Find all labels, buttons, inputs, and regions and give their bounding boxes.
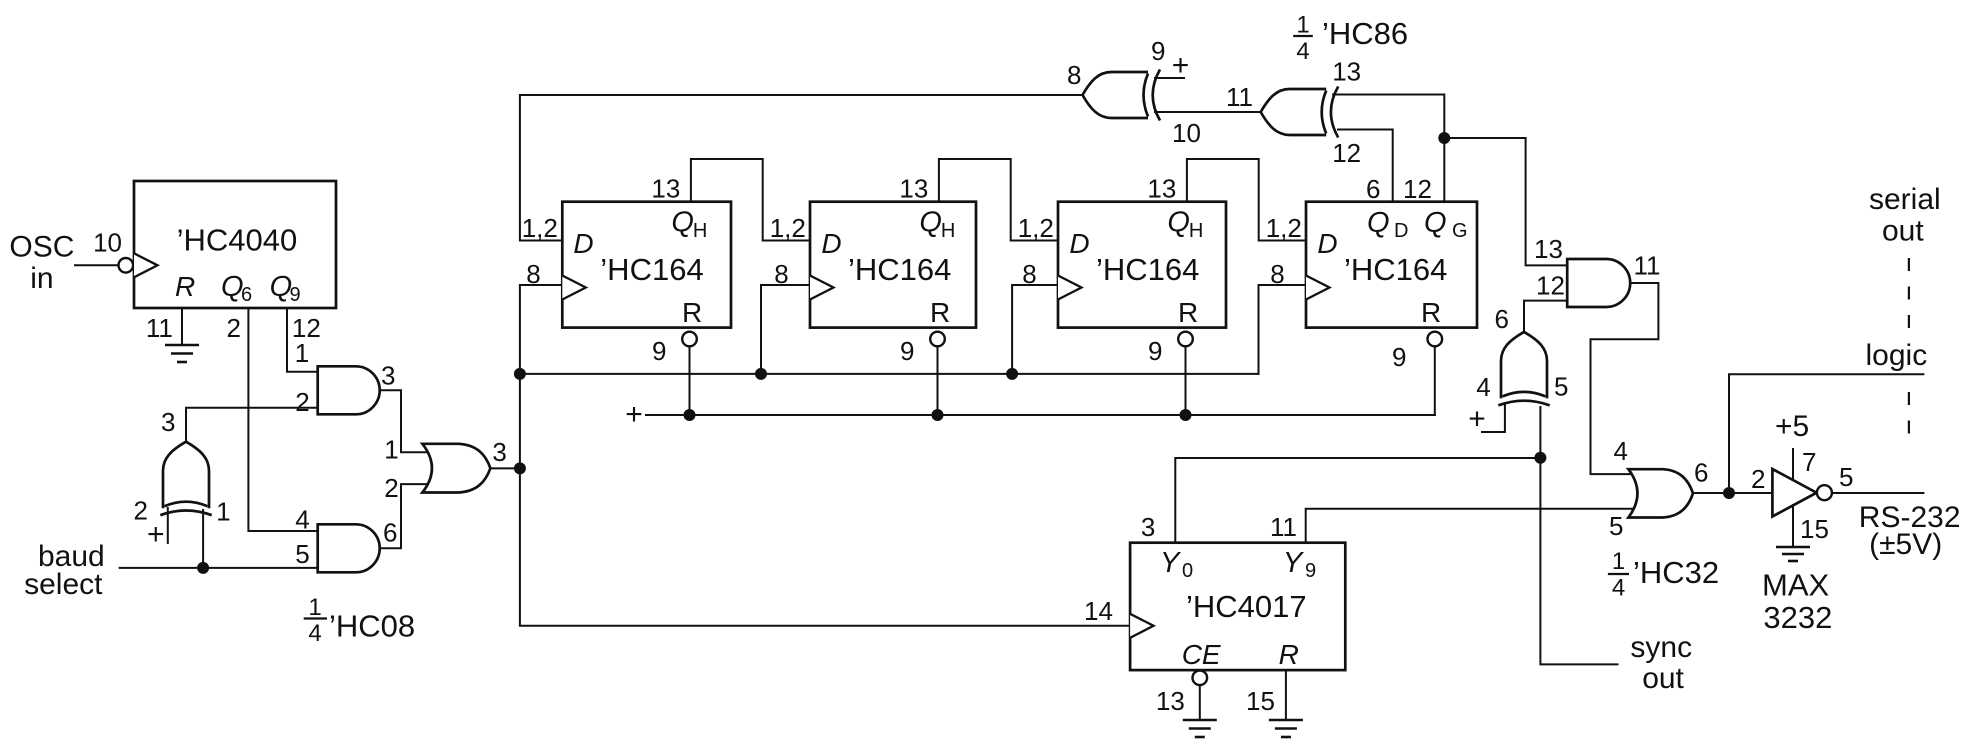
junction plus bus box2	[932, 409, 944, 421]
wire baud select	[120, 567, 318, 569]
wire AND3 out routing to OR pin 4	[1591, 283, 1659, 474]
junction clock bus	[514, 368, 526, 380]
enable bubble CE pin 13	[1193, 671, 1208, 686]
svg-text:4: 4	[1296, 38, 1309, 65]
wire xor pin 2 stub to +	[167, 508, 169, 543]
svg-text:H: H	[941, 220, 955, 242]
wire xor1 pin 9 to +	[1155, 77, 1184, 79]
svg-text:2: 2	[227, 313, 241, 343]
svg-text:3: 3	[1141, 512, 1155, 542]
svg-text:4: 4	[308, 620, 321, 647]
svg-text:6: 6	[383, 517, 397, 547]
svg-text:1: 1	[384, 435, 398, 465]
svg-text:7: 7	[1802, 447, 1816, 477]
svg-text:D: D	[821, 228, 841, 259]
wire QH box3 to D box4	[1187, 159, 1306, 241]
svg-text:4: 4	[1614, 436, 1628, 466]
wire OR2 out to logic node	[1693, 492, 1729, 494]
svg-text:3: 3	[161, 407, 175, 437]
svg-text:8: 8	[1022, 259, 1036, 289]
wire Q9 net	[287, 308, 318, 372]
svg-text:Y: Y	[1283, 547, 1305, 579]
svg-text:9: 9	[1392, 342, 1406, 372]
svg-text:CE: CE	[1182, 639, 1221, 670]
label 1/4 'HC08	[304, 594, 415, 647]
wire xor output pin 3 to AND pin 2	[186, 408, 318, 442]
svg-text:G: G	[1452, 220, 1468, 242]
svg-text:Y: Y	[1160, 547, 1182, 579]
junction clock rail / OR out	[514, 462, 526, 474]
wire logic node to inverter	[1729, 492, 1772, 494]
wire pin 9 box1 to plus bus	[689, 346, 691, 415]
junction clock drop box2	[755, 368, 767, 380]
svg-text:3: 3	[492, 437, 506, 467]
inverter output bubble	[1817, 485, 1832, 500]
svg-text:+5: +5	[1775, 410, 1809, 443]
svg-text:1,2: 1,2	[1266, 213, 1302, 243]
wire logic output	[1729, 374, 1923, 493]
ground MAX3232 pin 15	[1776, 547, 1810, 561]
svg-text:serial: serial	[1869, 183, 1941, 216]
svg-text:’HC164: ’HC164	[848, 252, 951, 287]
svg-text:3232: 3232	[1763, 600, 1832, 635]
svg-text:0: 0	[1182, 560, 1193, 582]
wire R (U7) to ground	[1285, 670, 1287, 720]
clock triangle U7	[1130, 614, 1154, 638]
wire RS-232 output	[1832, 492, 1923, 494]
xor gate U2c 'HC86 (feedback inverter)	[1083, 70, 1161, 121]
svg-text:13: 13	[1534, 234, 1563, 264]
junction clock drop box3	[1006, 368, 1018, 380]
svg-text:+: +	[147, 518, 165, 551]
svg-text:11: 11	[146, 313, 173, 343]
and gate U6 (right)	[1567, 259, 1630, 307]
svg-text:10: 10	[1172, 118, 1201, 148]
svg-text:9: 9	[652, 336, 666, 366]
reset bubble pin 9 box3	[1178, 332, 1193, 347]
wire Y0 net	[1175, 458, 1540, 543]
svg-text:’HC164: ’HC164	[600, 252, 703, 287]
svg-text:1: 1	[216, 497, 230, 527]
wire QG up	[1443, 138, 1445, 202]
svg-text:+: +	[625, 398, 643, 431]
svg-text:’HC164: ’HC164	[1096, 252, 1199, 287]
shift register U5 'HC164 box	[810, 202, 976, 328]
wire pin 9 box3 to plus bus	[1185, 346, 1187, 415]
svg-text:H: H	[693, 220, 707, 242]
wire xor3 out to AND pin 12	[1524, 301, 1567, 332]
xor gate U2d 'HC86 (feedback xor)	[1261, 87, 1339, 138]
wire OR output to clock rail	[490, 467, 520, 469]
wire AND1 out to OR pin 1	[380, 390, 431, 452]
svg-text:1,2: 1,2	[770, 213, 806, 243]
svg-text:8: 8	[1067, 60, 1081, 90]
svg-text:1: 1	[295, 338, 309, 368]
svg-text:R: R	[682, 297, 702, 328]
reset bubble pin 9 box2	[930, 332, 945, 347]
svg-text:1: 1	[1612, 548, 1625, 575]
wire clock rail	[520, 285, 1130, 626]
svg-text:H: H	[1189, 220, 1203, 242]
svg-text:2: 2	[1751, 464, 1765, 494]
svg-text:+: +	[1468, 402, 1486, 435]
wire QH box1 to D box2	[691, 159, 810, 241]
svg-text:10: 10	[93, 228, 122, 258]
dashed serial-or-logic link (lower)	[1908, 392, 1910, 434]
svg-text:1,2: 1,2	[1018, 213, 1054, 243]
and gate U3a 'HC08	[318, 366, 380, 414]
ground U7 R	[1269, 720, 1303, 737]
svg-text:6: 6	[1366, 174, 1380, 204]
svg-text:R: R	[1279, 639, 1299, 670]
wire OSC input	[75, 264, 118, 266]
svg-text:(±5V): (±5V)	[1869, 528, 1942, 561]
svg-text:14: 14	[1084, 596, 1113, 626]
svg-text:R: R	[930, 297, 950, 328]
svg-text:3: 3	[381, 361, 395, 391]
junction logic node	[1723, 487, 1735, 499]
svg-text:15: 15	[1246, 686, 1275, 716]
wire clock rise box4	[1259, 285, 1307, 374]
wire xor3 pin 5 to Y0 node	[1539, 407, 1541, 458]
svg-text:6: 6	[1495, 304, 1509, 334]
shift register U7 'HC164 box	[1306, 202, 1477, 328]
svg-text:sync: sync	[1630, 631, 1692, 664]
and gate U3b 'HC08	[318, 524, 380, 572]
svg-text:’HC4040: ’HC4040	[177, 223, 298, 258]
inverter U9 MAX3232 driver	[1772, 469, 1816, 517]
svg-text:15: 15	[1800, 514, 1829, 544]
svg-text:D: D	[1394, 220, 1408, 242]
wire xor3 pin 4 stub to +	[1482, 405, 1505, 432]
svg-text:13: 13	[899, 173, 928, 203]
svg-text:5: 5	[1839, 462, 1853, 492]
svg-text:Q: Q	[919, 207, 942, 239]
svg-text:’HC86: ’HC86	[1322, 16, 1408, 51]
svg-text:Q: Q	[671, 207, 694, 239]
wire QD to xor pin 12	[1338, 130, 1393, 202]
wire CE to ground	[1199, 685, 1201, 720]
counter U1 'HC4040 box	[134, 181, 336, 308]
junction baud select node	[197, 562, 209, 574]
wire QH box2 to D box3	[939, 159, 1058, 241]
svg-text:5: 5	[295, 539, 309, 569]
wire xor2 pin 13 from QG	[1333, 95, 1444, 139]
svg-text:Q: Q	[1167, 207, 1190, 239]
wire xor pin 1 to baud select	[202, 510, 204, 568]
svg-text:MAX: MAX	[1762, 568, 1830, 603]
wire U1 R to ground	[181, 308, 183, 345]
svg-text:13: 13	[1332, 57, 1361, 87]
wire Y9 to OR pin 5	[1306, 509, 1637, 543]
svg-text:OSC: OSC	[9, 231, 74, 264]
wire Q6 net	[248, 308, 317, 531]
svg-text:12: 12	[1536, 271, 1565, 301]
ground U1 reset	[165, 345, 199, 362]
svg-text:D: D	[1317, 228, 1337, 259]
svg-text:12: 12	[1403, 174, 1432, 204]
svg-text:11: 11	[1634, 251, 1661, 281]
svg-text:in: in	[30, 262, 53, 295]
clock triangle 'HC164 #1	[562, 276, 586, 300]
xor gate U2b 'HC86 (sync xor)	[1498, 332, 1549, 406]
svg-text:Q: Q	[1424, 207, 1447, 239]
svg-text:11: 11	[1226, 82, 1253, 112]
svg-text:out: out	[1882, 215, 1924, 248]
decade counter U7 'HC4017 box	[1130, 543, 1345, 670]
svg-text:9: 9	[1148, 336, 1162, 366]
svg-text:4: 4	[1476, 372, 1490, 402]
wire clock drop box3	[1012, 285, 1058, 374]
wire clock bus	[520, 373, 1259, 375]
wire clock stub box1 pin 8	[520, 284, 562, 286]
svg-text:D: D	[573, 228, 593, 259]
svg-text:5: 5	[1609, 511, 1623, 541]
junction Y0 / sync node	[1534, 452, 1546, 464]
svg-text:13: 13	[1156, 686, 1185, 716]
xor gate U2a 'HC86 (baud select inverter)	[160, 442, 211, 516]
wire pin 9 box4 to plus bus	[1434, 346, 1436, 415]
svg-text:logic: logic	[1866, 339, 1928, 372]
svg-text:’HC08: ’HC08	[329, 609, 415, 644]
wire +5 to pin 7	[1792, 449, 1794, 480]
svg-text:9: 9	[290, 284, 301, 306]
svg-text:4: 4	[1612, 574, 1625, 601]
svg-text:R: R	[175, 271, 195, 302]
shift register U6 'HC164 box	[1058, 202, 1226, 328]
svg-text:9: 9	[1151, 36, 1165, 66]
junction plus bus box3	[1180, 409, 1192, 421]
wire clock drop box2	[761, 285, 810, 374]
reset bubble pin 9 box1	[682, 332, 697, 347]
inverting clock bubble U1 pin 10	[119, 258, 134, 273]
wire pin 9 box2 to plus bus	[937, 346, 939, 415]
svg-text:out: out	[1642, 662, 1684, 695]
svg-text:9: 9	[900, 336, 914, 366]
clock triangle U1	[134, 253, 158, 277]
wire feedback to first D input	[520, 95, 1083, 241]
reset bubble pin 9 box4	[1428, 332, 1443, 347]
label 1/4 'HC86	[1293, 11, 1408, 65]
svg-text:1: 1	[1296, 11, 1309, 38]
svg-text:8: 8	[526, 259, 540, 289]
label 1/4 'HC32	[1608, 548, 1719, 601]
wire xor1 pin 10 to xor2 out	[1155, 111, 1261, 113]
svg-text:’HC164: ’HC164	[1344, 252, 1447, 287]
svg-text:D: D	[1069, 228, 1089, 259]
svg-text:2: 2	[295, 387, 309, 417]
svg-text:Q: Q	[1367, 207, 1390, 239]
svg-text:6: 6	[241, 284, 252, 306]
svg-text:1: 1	[308, 594, 321, 621]
junction plus bus box1	[684, 409, 696, 421]
wire QG node to AND pin 13	[1444, 138, 1567, 265]
svg-text:12: 12	[1332, 138, 1361, 168]
svg-text:4: 4	[295, 505, 309, 535]
or gate U3c 'HC08	[422, 444, 490, 493]
wire sync out	[1540, 458, 1617, 665]
svg-text:R: R	[1178, 297, 1198, 328]
svg-text:R: R	[1421, 297, 1441, 328]
clock triangle 'HC164 #2	[810, 276, 834, 300]
clock triangle 'HC164 #4	[1306, 276, 1330, 300]
or gate U8a 'HC32	[1628, 469, 1693, 517]
wire AND2 out to OR pin 2	[380, 484, 431, 548]
svg-text:5: 5	[1554, 372, 1568, 402]
clock triangle 'HC164 #3	[1058, 276, 1082, 300]
svg-text:6: 6	[1694, 458, 1708, 488]
svg-text:9: 9	[1305, 560, 1316, 582]
junction QG feedback node	[1438, 132, 1450, 144]
ground U7 CE	[1183, 720, 1217, 737]
dashed serial-or-logic link (upper)	[1908, 258, 1910, 328]
svg-text:8: 8	[774, 259, 788, 289]
svg-text:1,2: 1,2	[522, 213, 558, 243]
svg-text:’HC32: ’HC32	[1633, 555, 1719, 590]
svg-text:13: 13	[1147, 173, 1176, 203]
shift register U4 'HC164 box	[562, 202, 731, 328]
svg-text:2: 2	[134, 496, 148, 526]
svg-text:2: 2	[384, 473, 398, 503]
svg-text:select: select	[24, 568, 103, 601]
svg-text:13: 13	[651, 173, 680, 203]
wire reset plus bus	[646, 414, 1435, 416]
svg-text:8: 8	[1270, 259, 1284, 289]
svg-text:11: 11	[1270, 512, 1297, 542]
svg-text:’HC4017: ’HC4017	[1186, 589, 1307, 624]
wire pin 15 to ground	[1792, 505, 1794, 547]
